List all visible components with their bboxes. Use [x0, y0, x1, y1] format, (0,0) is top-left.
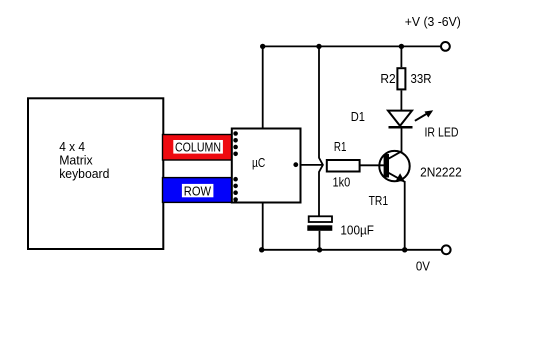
junction uC at 0V — [259, 247, 264, 252]
transistor TR1 — [379, 151, 409, 182]
keyboard block — [28, 98, 163, 249]
uC output pin — [293, 162, 298, 167]
junction cap at 0V — [317, 247, 322, 252]
IR emission arrow — [415, 110, 433, 121]
svg-text:0V: 0V — [416, 259, 431, 274]
svg-text:R2: R2 — [380, 71, 395, 86]
COLUMN bus — [163, 135, 233, 161]
svg-text:D1: D1 — [351, 109, 365, 124]
svg-text:IR LED: IR LED — [425, 125, 459, 140]
wire uC bottom to 0V rail — [262, 203, 264, 250]
microcontroller uC — [232, 129, 301, 203]
svg-text:33R: 33R — [411, 71, 432, 86]
wire collector to LED — [401, 127, 403, 152]
uC column pins — [233, 131, 238, 156]
uC row pins — [233, 177, 238, 202]
wire uC output to R1 — [301, 164, 323, 166]
junction emitter at 0V — [402, 247, 407, 252]
wire cap to 0V rail — [319, 231, 321, 250]
svg-text:COLUMN: COLUMN — [175, 140, 221, 155]
wire uC top supply — [262, 46, 264, 128]
resistor R2 — [397, 68, 405, 89]
capacitor C1 — [307, 216, 332, 231]
svg-text:1k0: 1k0 — [333, 175, 351, 190]
ROW bus — [163, 178, 233, 203]
svg-text:µC: µC — [252, 155, 265, 170]
svg-text:keyboard: keyboard — [59, 166, 109, 181]
junction uC supply — [260, 44, 265, 49]
svg-text:+V (3 -6V): +V (3 -6V) — [405, 14, 461, 29]
wire +V rail — [263, 45, 441, 47]
resistor R1 — [327, 160, 360, 172]
svg-text:ROW: ROW — [184, 183, 212, 198]
wire emitter to 0V rail — [404, 181, 406, 250]
terminal 0V — [442, 245, 451, 254]
svg-text:2N2222: 2N2222 — [420, 165, 462, 180]
wire R2 to LED — [400, 90, 402, 110]
wire rail to R2 — [400, 46, 402, 67]
LED D1 — [388, 111, 413, 128]
junction cap branch — [316, 44, 321, 49]
svg-text:R1: R1 — [334, 139, 347, 154]
svg-text:100µF: 100µF — [340, 222, 374, 237]
svg-text:TR1: TR1 — [369, 193, 389, 208]
wire R1 to base — [360, 164, 384, 166]
junction R2 branch — [399, 44, 404, 49]
wire +V to capacitor with hop — [319, 46, 323, 215]
wire 0V rail — [262, 249, 442, 251]
terminal +V — [441, 42, 450, 51]
